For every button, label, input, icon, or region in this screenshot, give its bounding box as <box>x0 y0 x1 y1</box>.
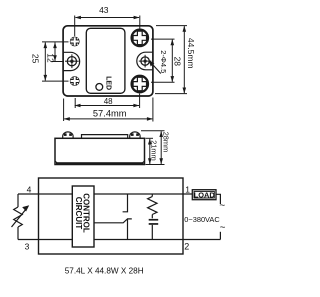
control circuit box U1 <box>72 186 94 247</box>
wire: AC source to bottom rail <box>219 232 221 240</box>
side view body <box>55 138 145 164</box>
output screw terminal bottom-right <box>132 76 148 92</box>
svg-text:57.4mm: 57.4mm <box>93 108 127 118</box>
svg-text:28: 28 <box>172 57 182 67</box>
wire: load to AC source <box>216 194 220 204</box>
snubber resistor R1 <box>148 194 157 218</box>
svg-text:2: 2 <box>184 242 189 252</box>
raised terminal cover strip <box>82 135 128 139</box>
dimension 12 (left inner) <box>52 42 65 61</box>
input screw terminal top-left <box>70 37 80 47</box>
svg-text:CIRCUIT: CIRCUIT <box>74 197 83 230</box>
snubber capacitor C1 <box>149 219 159 221</box>
wire: bottom rail <box>18 239 220 241</box>
side view bottom-right chamfer <box>141 161 144 164</box>
svg-text:3: 3 <box>25 241 30 251</box>
svg-text:43: 43 <box>99 5 109 15</box>
screw head left (side view) <box>63 132 73 138</box>
dimension 28 (right) <box>151 39 175 82</box>
svg-text:2-Φ4.5: 2-Φ4.5 <box>159 50 168 73</box>
svg-text:48: 48 <box>104 97 113 106</box>
svg-text:LOAD: LOAD <box>194 190 216 199</box>
svg-text:44.5mm: 44.5mm <box>186 38 196 69</box>
wire: control to switch actuator <box>94 219 127 223</box>
potentiometer VR1 (variable resistor) <box>12 194 27 240</box>
dimension 48 (bottom) <box>64 94 140 122</box>
dimension 21mm (side) <box>146 138 154 164</box>
dimension 43 (top) <box>75 16 140 37</box>
svg-text:4: 4 <box>27 185 32 195</box>
dimension 44.5mm (far right) <box>155 26 187 94</box>
dimension 25 (left) <box>42 42 69 81</box>
svg-text:21mm: 21mm <box>149 140 158 161</box>
base plate (thick bottom) <box>56 162 144 164</box>
right mounting hole (crosshair) <box>139 55 152 68</box>
label area inner rectangle <box>86 28 125 93</box>
svg-text:~: ~ <box>219 201 225 212</box>
screw head right (side view) <box>130 132 140 138</box>
left mounting hole (crosshair) <box>65 54 79 68</box>
dimension 28mm (side) <box>141 131 165 165</box>
svg-text:28mm: 28mm <box>162 132 171 153</box>
svg-text:25: 25 <box>31 54 41 64</box>
output switch contact (upper fixed side) <box>123 194 128 212</box>
svg-text:~: ~ <box>220 222 226 233</box>
left mounting boss (D shape) <box>63 52 79 70</box>
svg-text:12: 12 <box>46 53 56 63</box>
input screw terminal bottom-left <box>70 76 80 86</box>
output screw terminal top-right <box>132 30 148 46</box>
svg-text:0~380VAC: 0~380VAC <box>184 215 220 224</box>
SSR outer box <box>39 178 184 254</box>
body outline (top view) <box>63 26 153 96</box>
svg-text:1: 1 <box>185 184 190 194</box>
dimension 57.4mm (bottom) <box>64 98 153 122</box>
wire: input top rail <box>18 193 192 195</box>
output switch contact (lower moving side) <box>128 219 132 240</box>
LOAD box <box>192 190 216 200</box>
LED indicator circle <box>96 84 103 91</box>
right mounting boss (D shape) <box>137 52 153 70</box>
svg-text:57.4L X 44.8W X 28H: 57.4L X 44.8W X 28H <box>65 267 144 276</box>
side view bottom-left chamfer <box>55 161 58 164</box>
svg-text:LED: LED <box>104 76 111 90</box>
